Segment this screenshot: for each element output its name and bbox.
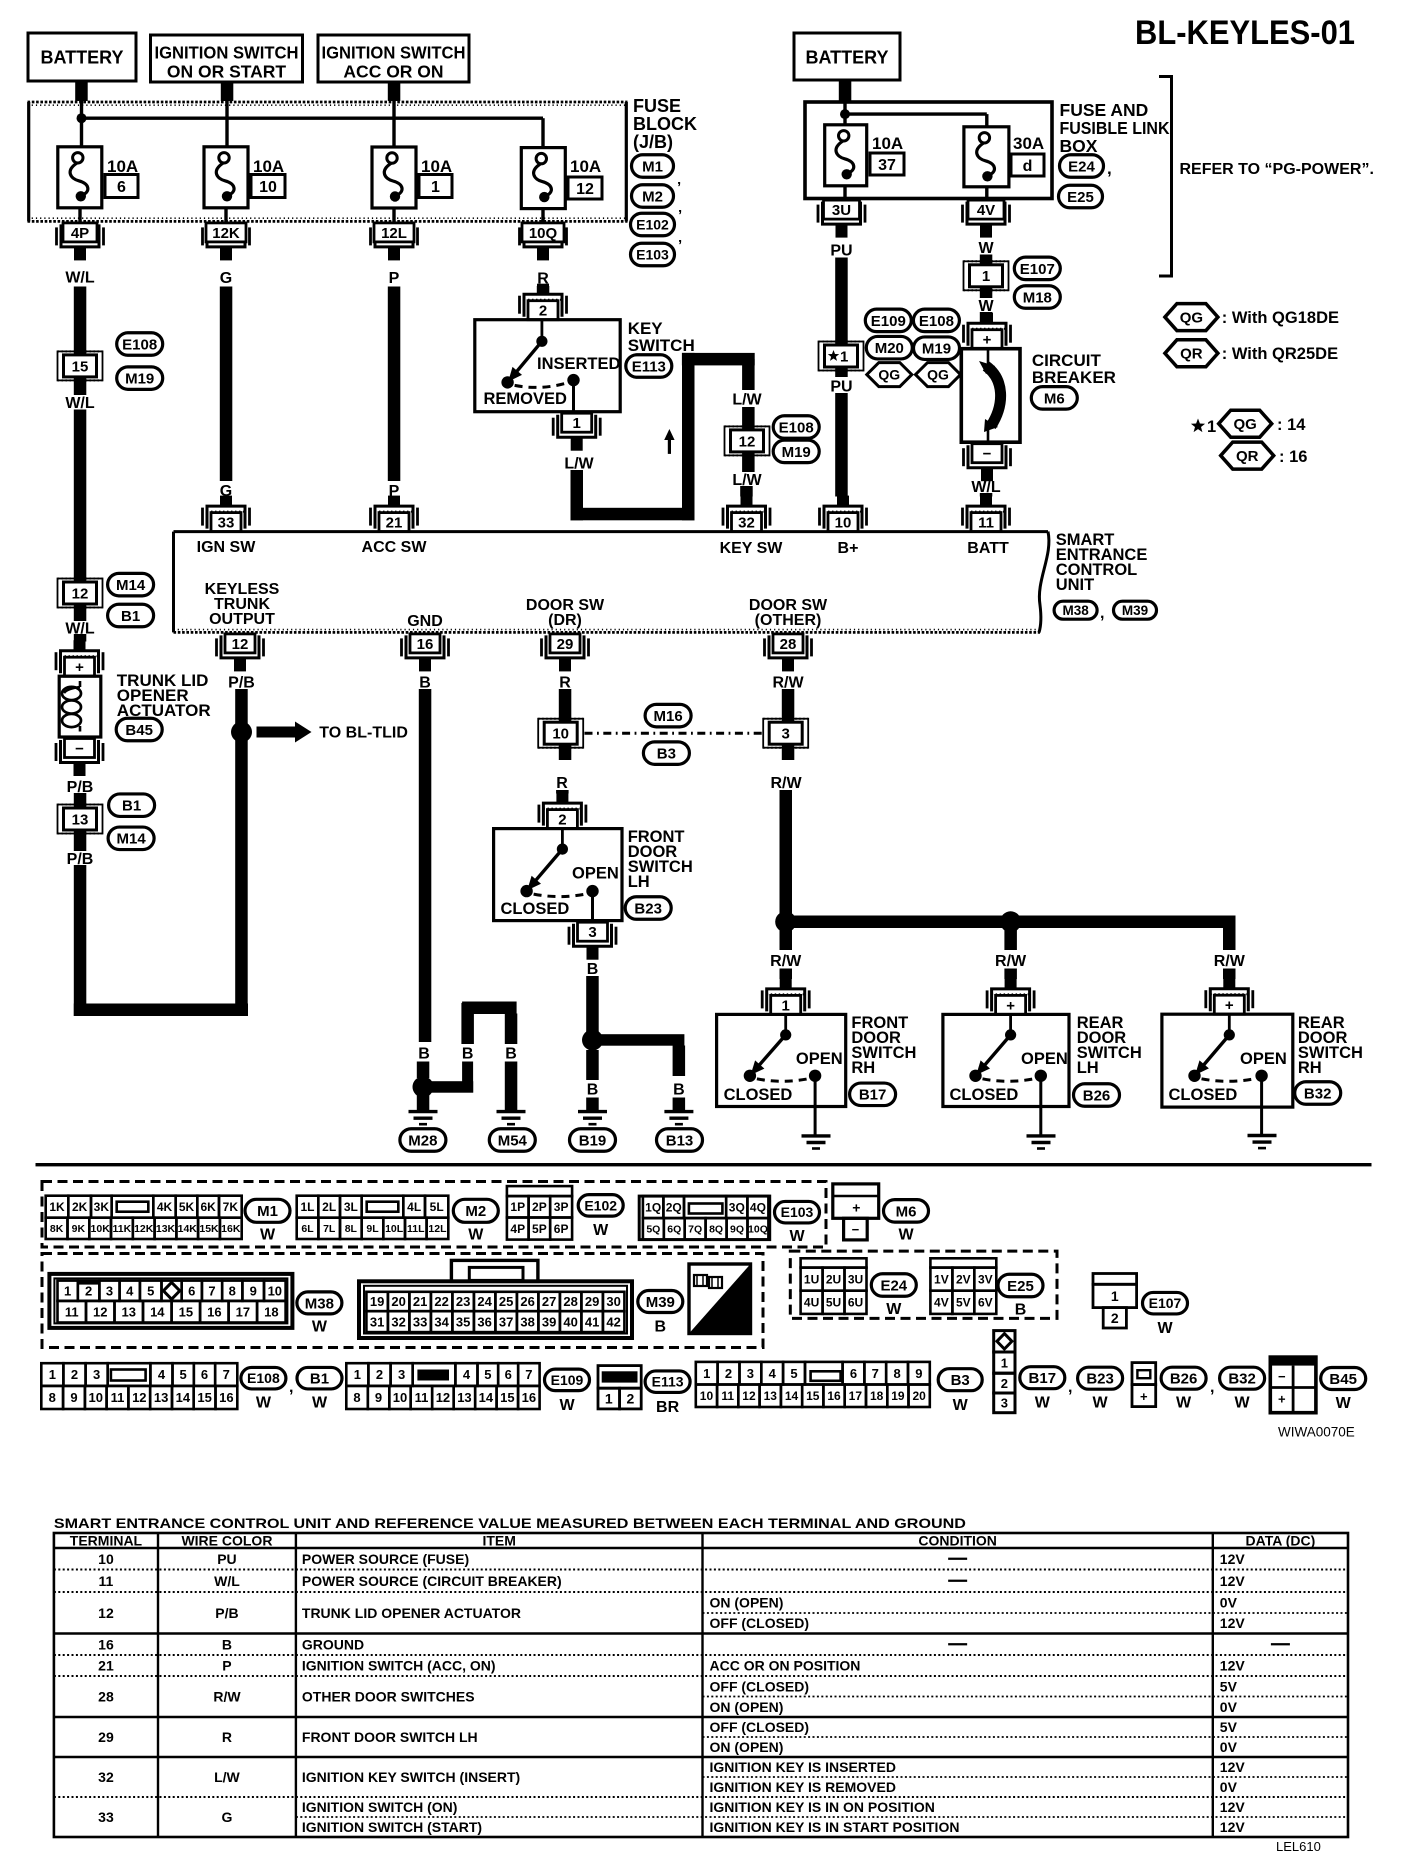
label star1 bbox=[1191, 418, 1216, 436]
label B+ bbox=[838, 540, 859, 557]
label R doorsw bbox=[559, 674, 571, 691]
svg-text:9L: 9L bbox=[366, 1223, 379, 1235]
svg-text:25: 25 bbox=[499, 1294, 513, 1309]
svg-text:ACC SW: ACC SW bbox=[362, 539, 428, 556]
svg-text:14K: 14K bbox=[178, 1223, 198, 1235]
label GND bbox=[407, 613, 443, 630]
fusible link d 30A bbox=[964, 127, 1044, 187]
svg-text:OPEN: OPEN bbox=[572, 865, 619, 883]
svg-text:’: ’ bbox=[677, 179, 681, 196]
svg-text:16: 16 bbox=[417, 636, 434, 653]
wire B gnd upper bbox=[419, 689, 432, 1042]
svg-text:R/W: R/W bbox=[995, 953, 1027, 970]
svg-text:+: + bbox=[75, 659, 84, 676]
svg-text:13: 13 bbox=[154, 1390, 168, 1405]
wire fusible bus bbox=[845, 103, 987, 127]
svg-text:1: 1 bbox=[782, 997, 790, 1014]
svg-text:W: W bbox=[978, 240, 994, 257]
label R/W low bbox=[770, 775, 802, 792]
dashed link M16 bbox=[585, 732, 763, 735]
svg-text:4Q: 4Q bbox=[750, 1200, 766, 1214]
label B gnd bbox=[419, 674, 431, 691]
connector face E102 bbox=[507, 1186, 572, 1240]
svg-text:TRUNK LID OPENER ACTUATOR: TRUNK LID OPENER ACTUATOR bbox=[302, 1605, 521, 1621]
svg-text:B32: B32 bbox=[1228, 1371, 1256, 1388]
svg-text:IGNITION SWITCH (START): IGNITION SWITCH (START) bbox=[302, 1819, 482, 1835]
svg-text:9: 9 bbox=[915, 1366, 922, 1381]
wire RW drop1 bbox=[780, 928, 793, 979]
svg-text:BATT: BATT bbox=[967, 540, 1009, 557]
svg-text:18: 18 bbox=[870, 1389, 884, 1403]
svg-text:IGNITION SWITCH (ACC, ON): IGNITION SWITCH (ACC, ON) bbox=[302, 1658, 496, 1674]
label W upper bbox=[978, 240, 994, 257]
node rw tee2 bbox=[1000, 911, 1021, 932]
svg-text:11: 11 bbox=[65, 1304, 79, 1319]
svg-text:R/W: R/W bbox=[770, 953, 802, 970]
svg-text:13: 13 bbox=[72, 811, 89, 828]
svg-text:10: 10 bbox=[835, 515, 852, 532]
label FRONT DOOR SWITCH RH bbox=[851, 1014, 916, 1077]
pin + rear door switch RH bbox=[1206, 978, 1253, 1014]
fuse 37 10A bbox=[825, 125, 904, 186]
svg-text:10: 10 bbox=[268, 1283, 282, 1298]
wire W/L lower bbox=[74, 410, 87, 622]
svg-text:M38: M38 bbox=[1062, 603, 1089, 618]
key switch contacts bbox=[501, 320, 579, 412]
node b19 tee bbox=[582, 1030, 603, 1051]
connector face M1 bbox=[46, 1196, 242, 1239]
connector 10 inline bbox=[538, 719, 583, 748]
label CIRCUIT BREAKER bbox=[1032, 351, 1116, 387]
svg-text:10Q: 10Q bbox=[748, 1224, 768, 1236]
svg-text:2K: 2K bbox=[72, 1200, 88, 1214]
connector label E25 face bbox=[998, 1274, 1043, 1318]
label OPEN b32 bbox=[1240, 1050, 1287, 1068]
ground B32 bbox=[1248, 1136, 1277, 1149]
svg-text:8: 8 bbox=[893, 1366, 900, 1381]
connector face E108 B1 bbox=[41, 1363, 237, 1409]
svg-text:POWER SOURCE (FUSE): POWER SOURCE (FUSE) bbox=[302, 1551, 469, 1567]
connector face M6 bbox=[833, 1184, 879, 1240]
connector label B32 a bbox=[1295, 1082, 1341, 1105]
svg-text:29: 29 bbox=[585, 1294, 599, 1309]
svg-text:3: 3 bbox=[93, 1367, 100, 1382]
label R/W b17 bbox=[770, 953, 802, 970]
svg-text:+: + bbox=[852, 1200, 860, 1216]
connector label B32 face bbox=[1220, 1367, 1265, 1411]
svg-text:G: G bbox=[222, 1809, 233, 1825]
label P low bbox=[389, 483, 400, 500]
svg-text:B: B bbox=[587, 961, 599, 978]
label TRUNK LID OPENER ACTUATOR bbox=[117, 671, 211, 720]
svg-text:IGNITION KEY IS IN ON POSITION: IGNITION KEY IS IN ON POSITION bbox=[710, 1799, 935, 1815]
connector label M19 c bbox=[914, 337, 960, 360]
svg-text:10: 10 bbox=[700, 1389, 714, 1403]
svg-text:6: 6 bbox=[850, 1366, 857, 1381]
svg-text:: With QR25DE: : With QR25DE bbox=[1222, 345, 1338, 363]
svg-text:’: ’ bbox=[678, 207, 682, 224]
svg-text:1: 1 bbox=[573, 415, 581, 432]
ground B19 bbox=[578, 1112, 607, 1125]
label B b13 bbox=[673, 1081, 685, 1098]
ground M54 bbox=[497, 1112, 526, 1125]
svg-text:17: 17 bbox=[849, 1389, 863, 1403]
svg-text:E107: E107 bbox=[1149, 1295, 1182, 1311]
label LEL610 bbox=[1276, 1839, 1321, 1854]
svg-text:B1: B1 bbox=[121, 608, 140, 625]
connector label B17 face bbox=[1020, 1367, 1073, 1412]
title BL-KEYLES-01 bbox=[1135, 14, 1355, 52]
svg-text:E108: E108 bbox=[122, 336, 157, 353]
svg-text:4: 4 bbox=[463, 1367, 471, 1382]
connector label B13 a bbox=[657, 1129, 703, 1152]
svg-text:ACC OR ON POSITION: ACC OR ON POSITION bbox=[710, 1658, 861, 1674]
label FUSE BLOCK (J/B) bbox=[633, 96, 697, 152]
label With QG18DE bbox=[1222, 309, 1339, 327]
svg-text:16: 16 bbox=[219, 1390, 233, 1405]
svg-text:OPEN: OPEN bbox=[1021, 1050, 1068, 1068]
svg-text:1: 1 bbox=[1111, 1288, 1119, 1304]
terminal + circuit breaker bbox=[964, 313, 1011, 349]
pin 3U bbox=[818, 200, 865, 238]
connector label B3 face bbox=[938, 1369, 982, 1414]
wire b19 stub bbox=[586, 1050, 599, 1112]
svg-text:W: W bbox=[1157, 1320, 1173, 1337]
wire fuse outputs bbox=[80, 208, 543, 224]
svg-text:3V: 3V bbox=[978, 1272, 993, 1286]
svg-text:E24: E24 bbox=[1068, 158, 1095, 175]
connector label B23 a bbox=[625, 897, 671, 920]
connector label M2 face bbox=[453, 1199, 498, 1243]
svg-text:LH: LH bbox=[628, 873, 650, 891]
svg-text:POWER SOURCE (CIRCUIT BREAKER): POWER SOURCE (CIRCUIT BREAKER) bbox=[302, 1573, 562, 1589]
label L/W right low bbox=[732, 472, 762, 489]
label DOOR SW (DR) bbox=[526, 597, 605, 629]
svg-text:16: 16 bbox=[98, 1636, 114, 1652]
svg-text:27: 27 bbox=[542, 1294, 556, 1309]
wire P/B to corner bbox=[74, 865, 87, 1016]
wire W a bbox=[980, 255, 993, 299]
svg-text:PU: PU bbox=[217, 1551, 236, 1567]
svg-text:B1: B1 bbox=[310, 1371, 329, 1388]
svg-text:4P: 4P bbox=[510, 1222, 525, 1236]
connector *1 inline bbox=[819, 342, 864, 371]
fuse 6 10A bbox=[58, 147, 138, 208]
svg-text:1P: 1P bbox=[510, 1200, 525, 1214]
svg-text:REFER TO “PG-POWER”.: REFER TO “PG-POWER”. bbox=[1180, 161, 1374, 178]
svg-text:B: B bbox=[1015, 1301, 1027, 1318]
node trunk tee bbox=[231, 722, 252, 743]
svg-text:DATA (DC): DATA (DC) bbox=[1246, 1533, 1316, 1549]
svg-text:W: W bbox=[468, 1226, 484, 1243]
svg-text:12: 12 bbox=[742, 1389, 756, 1403]
label L/W keyswitch bbox=[564, 455, 594, 472]
svg-text:M19: M19 bbox=[782, 444, 811, 461]
svg-text:3: 3 bbox=[588, 924, 596, 941]
svg-text:,: , bbox=[1107, 159, 1112, 178]
label OPEN b26 bbox=[1021, 1050, 1068, 1068]
svg-text:31: 31 bbox=[370, 1314, 384, 1329]
svg-text:3U: 3U bbox=[848, 1272, 863, 1286]
svg-text:W: W bbox=[1093, 1394, 1109, 1411]
label W/L 4P bbox=[65, 269, 95, 286]
svg-text:32: 32 bbox=[738, 515, 755, 532]
front door switch LH contacts bbox=[520, 829, 598, 921]
svg-text:B23: B23 bbox=[634, 900, 662, 917]
connector 1 inline W bbox=[964, 261, 1009, 290]
svg-text:15: 15 bbox=[197, 1390, 211, 1405]
label FUSE AND FUSIBLE LINK BOX bbox=[1060, 100, 1170, 156]
svg-text:M2: M2 bbox=[465, 1203, 486, 1220]
svg-text:M39: M39 bbox=[1122, 603, 1148, 618]
dashed group row1 bbox=[42, 1182, 826, 1248]
svg-text:W/L: W/L bbox=[65, 395, 95, 412]
svg-text:12V: 12V bbox=[1220, 1551, 1246, 1567]
svg-text:B17: B17 bbox=[859, 1087, 887, 1104]
HS mark bbox=[689, 1264, 751, 1334]
label REAR DOOR SWITCH LH bbox=[1077, 1014, 1142, 1077]
svg-text:8: 8 bbox=[229, 1283, 236, 1298]
fuse block J/B box bbox=[28, 102, 628, 221]
svg-text:WIRE COLOR: WIRE COLOR bbox=[181, 1533, 272, 1549]
svg-text:QG: QG bbox=[1234, 416, 1257, 433]
hexagon QG 14 bbox=[1219, 410, 1272, 437]
dashed group E24 E25 bbox=[790, 1251, 1057, 1318]
svg-text:: 14: : 14 bbox=[1277, 416, 1306, 434]
ignition switch acc/on box bbox=[318, 35, 469, 82]
connector label B1 b bbox=[109, 794, 155, 817]
svg-text:12L: 12L bbox=[428, 1223, 447, 1235]
wire W/L to actuator bbox=[74, 634, 87, 642]
connector label B17 a bbox=[850, 1083, 896, 1106]
svg-text:+: + bbox=[1006, 997, 1015, 1014]
svg-text:12: 12 bbox=[576, 181, 594, 198]
svg-text:12V: 12V bbox=[1220, 1573, 1246, 1589]
svg-text:IGNITION SWITCH: IGNITION SWITCH bbox=[322, 42, 466, 62]
connector label M14 b bbox=[108, 827, 154, 850]
svg-text:15K: 15K bbox=[199, 1223, 219, 1235]
connector face B3 vertical bbox=[994, 1331, 1015, 1413]
svg-text:P/B: P/B bbox=[228, 674, 255, 691]
svg-text:12: 12 bbox=[98, 1605, 114, 1621]
wire bottom corner horizontal bbox=[74, 1004, 248, 1017]
svg-text:10: 10 bbox=[89, 1390, 103, 1405]
svg-text:12: 12 bbox=[132, 1390, 146, 1405]
svg-text:IGN SW: IGN SW bbox=[197, 539, 257, 556]
svg-text:B23: B23 bbox=[1086, 1371, 1114, 1388]
svg-text:R/W: R/W bbox=[213, 1689, 241, 1705]
wire battery1 stub bbox=[75, 81, 88, 101]
svg-text:E113: E113 bbox=[652, 1374, 684, 1390]
svg-text:8: 8 bbox=[49, 1390, 56, 1405]
svg-text:W: W bbox=[953, 1397, 969, 1414]
wire G bbox=[220, 287, 233, 482]
label CLOSED fdslh bbox=[501, 900, 570, 918]
connector 13 inline bbox=[58, 805, 103, 834]
connector label M1 face bbox=[245, 1199, 290, 1243]
svg-text:6K: 6K bbox=[200, 1200, 216, 1214]
pin 28 DOOR SW OTHER bbox=[765, 634, 812, 672]
label W/L breaker bbox=[971, 479, 1001, 496]
svg-text:QG: QG bbox=[927, 367, 949, 383]
svg-text:M14: M14 bbox=[117, 831, 147, 848]
svg-text:1: 1 bbox=[431, 179, 440, 196]
svg-text:13: 13 bbox=[457, 1390, 471, 1405]
svg-text:B: B bbox=[462, 1045, 474, 1062]
wire R a bbox=[559, 689, 572, 760]
svg-text:15: 15 bbox=[72, 358, 89, 375]
svg-text:W: W bbox=[559, 1397, 575, 1414]
wire m28 stub bbox=[417, 1095, 430, 1112]
connector label E24 face bbox=[871, 1274, 916, 1318]
ground M28 bbox=[409, 1112, 438, 1125]
connector label E24 bbox=[1060, 155, 1112, 178]
svg-text:2Q: 2Q bbox=[666, 1200, 682, 1214]
svg-text:7: 7 bbox=[223, 1367, 230, 1382]
svg-text:21: 21 bbox=[413, 1294, 427, 1309]
svg-text:: 16: : 16 bbox=[1279, 448, 1307, 466]
svg-text:B32: B32 bbox=[1304, 1085, 1332, 1102]
rear door switch RH contacts bbox=[1188, 1014, 1268, 1135]
label B gnd low bbox=[418, 1045, 430, 1062]
svg-text:B: B bbox=[587, 1081, 599, 1098]
label TO BL-TLID bbox=[319, 725, 408, 742]
node rw tee1 bbox=[775, 911, 796, 932]
svg-text:12L: 12L bbox=[381, 225, 407, 242]
svg-text:1Q: 1Q bbox=[645, 1200, 661, 1214]
svg-text:3: 3 bbox=[398, 1367, 405, 1382]
terminal - trunk actuator bbox=[56, 739, 103, 777]
label P/B low bbox=[67, 851, 94, 868]
label INSERTED bbox=[537, 355, 621, 373]
svg-text:−: − bbox=[75, 740, 84, 757]
connector 12 inline left bbox=[58, 579, 103, 608]
wire P/B keyless bbox=[235, 689, 248, 1012]
svg-text:4U: 4U bbox=[804, 1296, 819, 1310]
ground B17 bbox=[802, 1136, 831, 1149]
rear door switch LH contacts bbox=[969, 1014, 1047, 1136]
svg-text:L/W: L/W bbox=[732, 391, 762, 408]
connector face M38 bbox=[49, 1274, 292, 1328]
svg-text:12K: 12K bbox=[134, 1223, 154, 1235]
svg-text:R/W: R/W bbox=[772, 674, 804, 691]
label CLOSED b26 bbox=[950, 1086, 1019, 1104]
svg-text:E107: E107 bbox=[1020, 261, 1055, 278]
svg-text:R: R bbox=[222, 1729, 232, 1745]
svg-text:33: 33 bbox=[218, 515, 235, 532]
svg-text:10A: 10A bbox=[872, 134, 903, 153]
svg-text:16: 16 bbox=[522, 1390, 536, 1405]
svg-text:24: 24 bbox=[477, 1294, 492, 1309]
svg-text:B45: B45 bbox=[125, 722, 153, 739]
svg-text:OTHER DOOR SWITCHES: OTHER DOOR SWITCHES bbox=[302, 1689, 475, 1705]
svg-text:W: W bbox=[260, 1226, 276, 1243]
svg-text:2: 2 bbox=[725, 1366, 732, 1381]
label B m54 leg bbox=[505, 1045, 517, 1062]
svg-text:12: 12 bbox=[232, 636, 249, 653]
svg-text:8L: 8L bbox=[345, 1223, 358, 1235]
svg-text:,: , bbox=[1210, 1379, 1214, 1396]
label W/L low bbox=[65, 620, 95, 637]
svg-text:19: 19 bbox=[891, 1389, 905, 1403]
label REAR DOOR SWITCH RH bbox=[1298, 1014, 1363, 1077]
label PU upper bbox=[830, 242, 852, 259]
connector label E103 face bbox=[775, 1201, 820, 1244]
svg-text:6: 6 bbox=[505, 1367, 512, 1382]
svg-text:5P: 5P bbox=[532, 1222, 547, 1236]
label SMART ENTRANCE CONTROL UNIT bbox=[1056, 531, 1148, 594]
battery B2 box bbox=[794, 33, 900, 80]
svg-text:11: 11 bbox=[978, 515, 994, 532]
svg-text:LH: LH bbox=[1077, 1059, 1099, 1077]
svg-text:(J/B): (J/B) bbox=[633, 132, 673, 152]
label W/L mid bbox=[65, 395, 95, 412]
svg-text:20: 20 bbox=[912, 1389, 926, 1403]
svg-text:8K: 8K bbox=[50, 1223, 64, 1235]
svg-text:38: 38 bbox=[520, 1314, 534, 1329]
svg-text:PU: PU bbox=[830, 242, 852, 259]
svg-text:E113: E113 bbox=[632, 358, 666, 375]
wire L/W to pin32 bbox=[740, 486, 753, 497]
svg-text:+: + bbox=[983, 332, 992, 349]
svg-text:GROUND: GROUND bbox=[302, 1636, 364, 1652]
svg-text:M1: M1 bbox=[642, 158, 663, 175]
svg-text:BLOCK: BLOCK bbox=[633, 114, 697, 134]
label REMOVED bbox=[484, 390, 568, 408]
svg-text:P/B: P/B bbox=[215, 1605, 238, 1621]
connector label B26 a bbox=[1074, 1084, 1120, 1107]
svg-text:32: 32 bbox=[391, 1314, 405, 1329]
svg-text:B45: B45 bbox=[1329, 1371, 1357, 1388]
svg-text:RH: RH bbox=[1298, 1059, 1322, 1077]
svg-text:IGNITION SWITCH: IGNITION SWITCH bbox=[155, 42, 299, 62]
svg-text:BL-KEYLES-01: BL-KEYLES-01 bbox=[1135, 14, 1355, 52]
wire RW drop2 bbox=[1004, 928, 1017, 979]
svg-text:9K: 9K bbox=[72, 1223, 86, 1235]
svg-text:16: 16 bbox=[827, 1389, 841, 1403]
svg-text:OFF (CLOSED): OFF (CLOSED) bbox=[710, 1678, 810, 1694]
svg-text:11K: 11K bbox=[113, 1223, 132, 1235]
node battery2 junction bbox=[840, 109, 850, 119]
pin 1 front door switch RH bbox=[762, 978, 809, 1014]
pin 21 ACC SW bbox=[371, 496, 418, 532]
label B fdslh bbox=[587, 961, 599, 978]
svg-text:W: W bbox=[898, 1226, 914, 1243]
svg-text:IGNITION KEY IS IN START POSIT: IGNITION KEY IS IN START POSITION bbox=[710, 1819, 960, 1835]
svg-text:BOX: BOX bbox=[1060, 136, 1098, 156]
svg-text:1U: 1U bbox=[804, 1272, 819, 1286]
pin 2 key switch bbox=[520, 284, 567, 320]
connector label E25 bbox=[1059, 185, 1103, 208]
label CLOSED b17 bbox=[724, 1086, 793, 1104]
pin 3 front door switch LH bbox=[569, 922, 616, 960]
svg-text:E102: E102 bbox=[636, 217, 669, 233]
wire RW trunk bbox=[786, 916, 1236, 929]
svg-text:B: B bbox=[505, 1045, 517, 1062]
svg-text:L/W: L/W bbox=[564, 455, 594, 472]
svg-text:BR: BR bbox=[656, 1399, 680, 1416]
connector label M19 b bbox=[773, 440, 819, 463]
label REFER TO PG-POWER bbox=[1180, 161, 1374, 178]
svg-text:30A: 30A bbox=[1013, 134, 1044, 153]
label OPEN b17 bbox=[796, 1050, 843, 1068]
svg-text:3: 3 bbox=[747, 1366, 754, 1381]
svg-text:E24: E24 bbox=[880, 1277, 907, 1294]
svg-text:−: − bbox=[983, 446, 992, 463]
svg-text:E108: E108 bbox=[919, 313, 954, 330]
connector label M2 bbox=[632, 179, 682, 207]
svg-text:6: 6 bbox=[117, 179, 126, 196]
